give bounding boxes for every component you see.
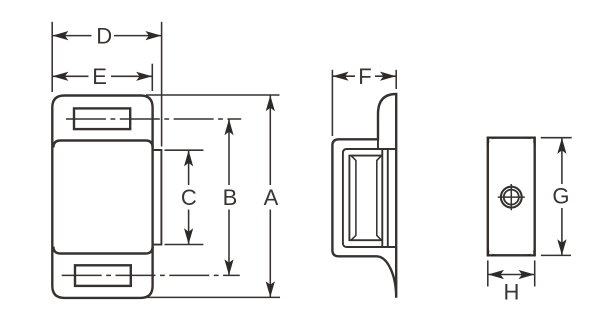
dim E dimension line (52, 75, 152, 77)
arrowhead C bottom (184, 228, 193, 244)
left view: top mounting slot (74, 108, 130, 129)
middle view: magnet cavity outline (349, 156, 382, 241)
dim D dimension line (52, 35, 161, 37)
left view: top slot centerline (66, 118, 241, 120)
right view corner wedge bottom-left (488, 247, 496, 255)
arrowhead H left (488, 270, 504, 279)
svg-text:D: D (96, 23, 112, 48)
dim C dimension line (188, 150, 190, 244)
dim C extension line bottom (165, 244, 204, 246)
arrowhead B bottom (224, 259, 233, 275)
right view: strike plate outline (488, 138, 535, 256)
right view corner wedge top-right (527, 138, 535, 146)
dim D extension line left (51, 22, 53, 92)
wire: cavity right vertical (381, 149, 383, 247)
dim G extension line top (541, 137, 572, 139)
arrowhead A top (266, 95, 275, 111)
arrowhead B top (224, 119, 233, 135)
right view: screw hole crosshair outer circle (501, 187, 522, 208)
left view: catch body outline (52, 96, 152, 298)
dim A extension line bottom (146, 296, 280, 298)
arrowhead C top (184, 150, 193, 166)
dim B dimension line (228, 119, 230, 275)
arrowhead F right (380, 72, 396, 81)
left view: bottom flange/body junction line (53, 247, 152, 254)
right view corner wedge bottom-right (527, 247, 535, 255)
arrowhead A bottom (266, 281, 275, 297)
svg-text:A: A (264, 185, 279, 210)
svg-text:H: H (503, 280, 519, 305)
dim H extension line right (534, 260, 536, 286)
arrowhead E left (52, 72, 68, 81)
left view: bottom slot centerline (62, 274, 240, 276)
dim A dimension line (269, 95, 271, 297)
left view: magnet strip protrusion (153, 150, 162, 245)
svg-text:E: E (92, 64, 107, 89)
arrowhead G top (557, 138, 566, 154)
dim C extension line top (165, 149, 204, 151)
dim G extension line bottom (541, 254, 571, 256)
middle view: inner vertical line right (387, 149, 389, 247)
dim F extension line left (331, 70, 333, 136)
right view corner wedge top-left (488, 138, 496, 146)
dim F extension line right (395, 70, 397, 89)
arrowhead D left (52, 31, 68, 40)
svg-text:C: C (181, 185, 197, 210)
middle view: magnet pocket with chamfers (351, 156, 382, 241)
wire: plate left edge below step (377, 139, 379, 149)
left view: top flange/body junction line (53, 141, 152, 148)
arrowhead E right (136, 72, 152, 81)
dim A extension line top (146, 94, 280, 96)
dim G dimension line (561, 138, 563, 256)
svg-text:F: F (358, 64, 371, 89)
arrowhead F left (333, 72, 349, 81)
right view: crosshair center lines (498, 184, 525, 210)
svg-text:B: B (223, 185, 238, 210)
middle view: outer profile (plate with curved top and foot) (332, 94, 396, 298)
dim E extension line right (151, 64, 153, 91)
left view: bottom mounting slot (75, 265, 131, 286)
dim D extension line right (161, 22, 163, 147)
right view: screw hole inner circle (504, 190, 519, 205)
arrowhead H right (519, 270, 535, 279)
dim H dimension line (488, 274, 535, 276)
dim H extension line left (487, 260, 489, 286)
middle view: inner wall line (343, 149, 396, 247)
arrowhead D right (145, 31, 161, 40)
dim F dimension line (332, 75, 396, 77)
svg-text:G: G (552, 184, 569, 209)
arrowhead G bottom (557, 239, 566, 255)
